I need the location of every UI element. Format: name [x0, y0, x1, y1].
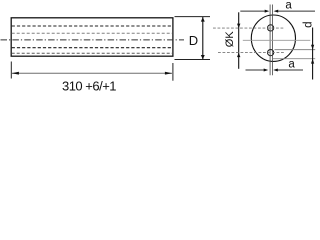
svg-text:D: D [189, 33, 198, 48]
svg-text:ØK: ØK [224, 31, 236, 48]
svg-text:d: d [303, 21, 315, 27]
svg-text:a: a [288, 59, 295, 71]
svg-text:a: a [285, 0, 292, 12]
svg-text:310 +6/+1: 310 +6/+1 [62, 79, 116, 94]
